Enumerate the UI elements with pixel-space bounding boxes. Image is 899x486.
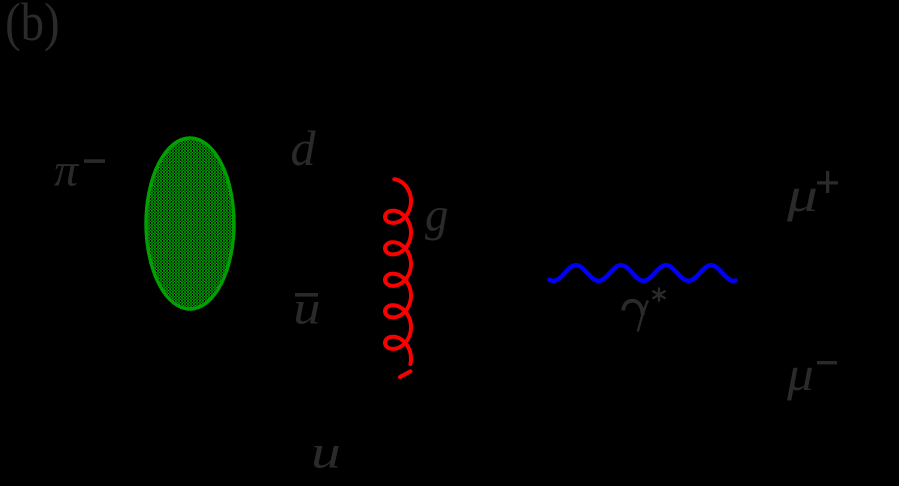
svg-text:π: π — [54, 145, 79, 196]
svg-text:g: g — [425, 189, 448, 242]
svg-text:u: u — [311, 426, 341, 478]
svg-text:μ: μ — [786, 168, 818, 221]
svg-text:μ: μ — [786, 348, 814, 401]
svg-text:d: d — [291, 120, 317, 176]
svg-text:(b): (b) — [5, 0, 60, 52]
svg-text:u: u — [293, 283, 320, 335]
